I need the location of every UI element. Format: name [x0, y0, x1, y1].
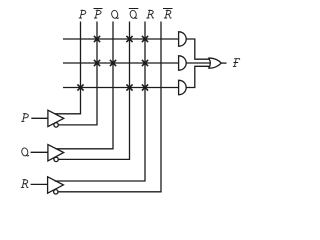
wire A1 output to OR input 1: [186, 39, 209, 59]
AND gate A1: [179, 32, 187, 46]
wire + column line P (net P): [55, 22, 81, 114]
product row 3 wire (P AND Q-bar AND R): [63, 87, 179, 89]
connection X row2 column R: [142, 60, 148, 66]
AND gate A3: [179, 80, 187, 94]
output label F: [233, 59, 240, 67]
wire + column line Q-bar (net Q-bar): [58, 22, 129, 160]
product row 2 wire (P-bar AND Q AND R): [63, 62, 179, 64]
label P-bar (top of column 2): [94, 9, 103, 19]
connection X row2 column Q: [110, 60, 116, 66]
label R-bar (top of column 6): [163, 9, 173, 19]
connection X row3 column P: [77, 84, 83, 90]
buffer U3 (R driver): [48, 177, 64, 193]
input label Q: [21, 147, 29, 156]
product row 1 wire (P-bar AND Q-bar AND R): [63, 38, 179, 40]
inversion bubble U1: [54, 123, 58, 127]
label P (top of column 1): [79, 10, 86, 18]
label R (top of column 5): [147, 10, 154, 18]
label Q-bar (top of column 4): [129, 9, 139, 19]
buffer U2 (Q driver): [48, 145, 64, 161]
connection X row2 column P-bar: [94, 60, 100, 66]
input label P: [22, 114, 29, 122]
connection X row3 column Q-bar: [126, 84, 132, 90]
label Q (top of column 3): [111, 10, 119, 19]
wire Q input: [31, 151, 48, 153]
connection X row1 column R: [142, 36, 148, 42]
wire + column line P-bar (net P-bar): [58, 22, 97, 125]
wire P input: [31, 117, 48, 119]
buffer U1 (P driver): [48, 110, 64, 126]
wire R input: [31, 183, 48, 185]
input label R: [21, 180, 28, 188]
wire + column line R (net R): [55, 22, 146, 182]
wire A2 output to OR input 2: [186, 62, 211, 64]
connection X row1 column Q-bar: [126, 36, 132, 42]
wire A3 output to OR input 3: [186, 66, 209, 87]
wire + column line Q (net Q): [56, 22, 114, 149]
wire + column line R-bar (net R-bar): [58, 22, 161, 192]
inversion bubble U3: [54, 190, 58, 194]
connection X row1 column P-bar: [94, 36, 100, 42]
connection X row3 column R: [142, 84, 148, 90]
OR gate U4: [209, 58, 222, 68]
AND gate A2: [179, 56, 187, 70]
inversion bubble U2: [54, 157, 58, 161]
wire F output: [221, 62, 226, 64]
